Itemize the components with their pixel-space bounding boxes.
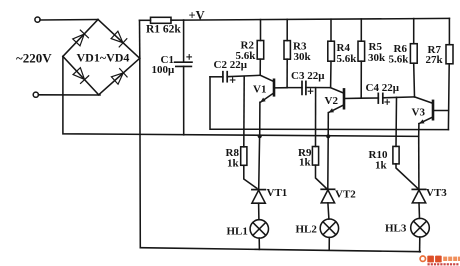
- wire riser bridge + to R1: [139, 20, 141, 58]
- wire R7 to V3 base node: [447, 64, 450, 130]
- wire V1 emitter down: [259, 102, 261, 136]
- diode VD (top-left): [72, 30, 88, 46]
- wire +V rail: [184, 18, 450, 20]
- svg-text:~220V: ~220V: [16, 51, 52, 66]
- wire: [40, 19, 98, 22]
- svg-text:R1 62k: R1 62k: [146, 24, 181, 36]
- wire R9 to VT2 gate: [316, 165, 327, 188]
- thyristor VT3: [412, 136, 425, 218]
- transistor V2: [329, 88, 362, 113]
- svg-text:HL2: HL2: [296, 224, 318, 236]
- wire: [38, 94, 100, 96]
- resistor R7: [446, 18, 453, 63]
- svg-text:V1: V1: [253, 84, 266, 96]
- svg-text:5.6k: 5.6k: [389, 53, 410, 65]
- svg-text:30k: 30k: [368, 52, 386, 64]
- lamp HL3: [411, 218, 430, 251]
- resistor R2: [257, 20, 264, 76]
- svg-text:VT2: VT2: [335, 188, 356, 200]
- diode VD (bottom-right): [111, 69, 127, 85]
- svg-text:5.6k: 5.6k: [236, 50, 257, 62]
- thyristor VT1: [252, 136, 265, 220]
- resistor R5: [358, 19, 365, 98]
- resistor R3: [284, 19, 290, 87]
- svg-text:VT1: VT1: [267, 187, 288, 199]
- svg-text:VT3: VT3: [426, 187, 447, 199]
- wire gate branch to R10: [395, 97, 398, 146]
- svg-text:27k: 27k: [426, 54, 444, 66]
- svg-text:1k: 1k: [299, 157, 312, 169]
- wire V2 base to C4: [361, 97, 378, 99]
- wire V1 base to C3: [287, 87, 302, 89]
- capacitor C4: [378, 93, 414, 104]
- wire gate branch to R8: [243, 77, 245, 147]
- svg-text:HL1: HL1: [227, 226, 248, 238]
- svg-text:100μ: 100μ: [152, 64, 176, 76]
- svg-text:HL3: HL3: [385, 222, 407, 234]
- lamp HL1: [250, 220, 268, 250]
- svg-text:C4 22μ: C4 22μ: [366, 82, 400, 94]
- wire R10 to VT3 gate: [396, 164, 417, 188]
- svg-text:1k: 1k: [375, 159, 388, 171]
- svg-text:V2: V2: [325, 95, 339, 107]
- junction: [258, 134, 262, 138]
- wire V3 emitter down: [418, 124, 420, 137]
- transistor V1: [260, 75, 287, 102]
- svg-text:30k: 30k: [294, 51, 312, 63]
- svg-text:V3: V3: [412, 107, 426, 119]
- thyristor VT2: [321, 136, 334, 219]
- capacitor C2: [210, 72, 260, 83]
- terminal AC top: [35, 17, 40, 22]
- wire positive feed down: [139, 58, 142, 247]
- wire V2 emitter down: [327, 113, 329, 137]
- wire R8 to VT1 gate: [244, 165, 257, 188]
- svg-text:1k: 1k: [227, 158, 240, 170]
- transistor V3: [415, 97, 449, 124]
- svg-text:C3 22μ: C3 22μ: [291, 70, 325, 82]
- capacitor C1: [175, 20, 192, 135]
- wire bottom rail: [140, 248, 420, 252]
- terminal AC bottom: [33, 92, 38, 97]
- lamp HL2: [320, 219, 338, 250]
- resistor R4: [328, 19, 335, 87]
- wire negative rail (bridge left vertex, down and across): [63, 56, 419, 136]
- wire gate branch to R9: [315, 88, 317, 147]
- resistor R9: [312, 147, 318, 166]
- svg-text:VD1~VD4: VD1~VD4: [77, 51, 130, 65]
- junction: [326, 134, 330, 138]
- resistor R6: [410, 19, 417, 97]
- bridge rectifier VD1~VD4: [63, 20, 140, 95]
- wire C2 feedback loop to V3 base: [210, 77, 448, 130]
- resistor R1: [140, 17, 184, 23]
- diode VD (top-right): [111, 31, 127, 47]
- capacitor C3: [302, 81, 331, 94]
- resistor R8: [241, 147, 247, 166]
- diode VD (bottom-left): [73, 67, 89, 83]
- svg-text:+V: +V: [189, 9, 205, 23]
- watermark logo: [420, 256, 460, 266]
- svg-text:5.6k: 5.6k: [337, 53, 358, 65]
- resistor R10: [393, 146, 399, 164]
